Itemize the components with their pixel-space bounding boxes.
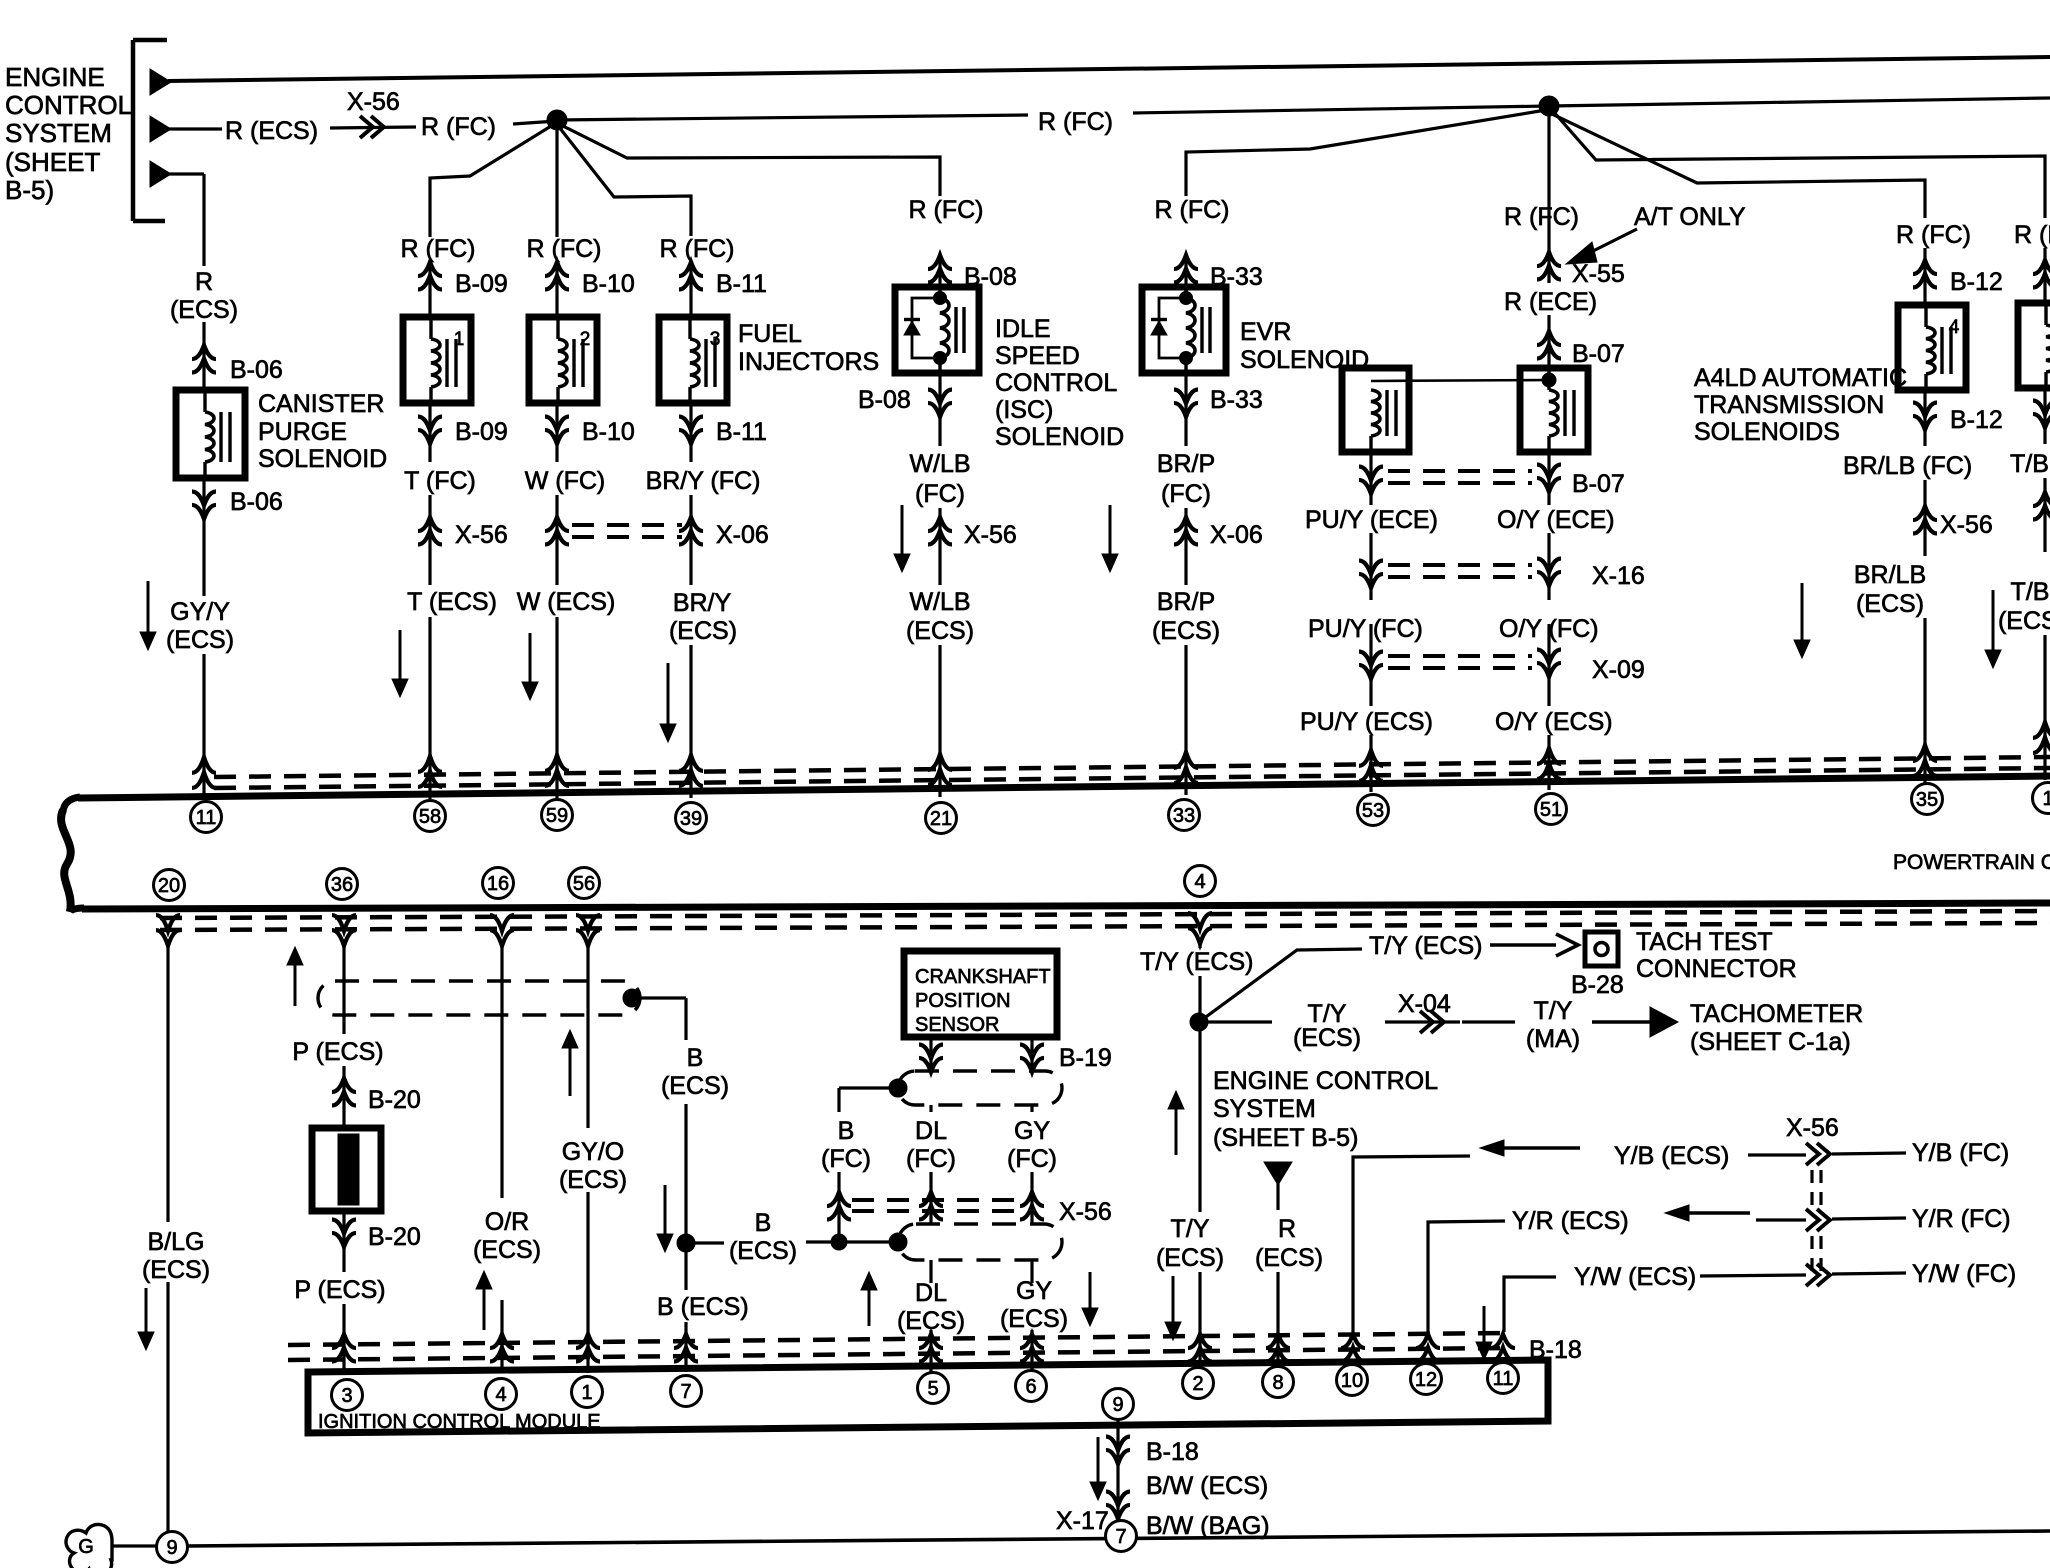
svg-text:X-16: X-16 [1592, 562, 1645, 590]
svg-text:W (ECS): W (ECS) [517, 588, 616, 616]
arrow: W direction down [529, 633, 532, 684]
svg-text:(MA): (MA) [1526, 1025, 1580, 1053]
wire: R (FC) to junction [513, 121, 557, 124]
EVR solenoid [1142, 287, 1226, 373]
svg-text:GY: GY [1014, 1117, 1050, 1145]
svg-text:Y/B (FC): Y/B (FC) [1912, 1139, 2009, 1167]
connector X-55 [1547, 197, 1550, 283]
PCM pin 1 (clipped) [2033, 783, 2050, 814]
PCM pin 51 [1536, 794, 1567, 825]
wire W (ECS) to PCM [555, 617, 558, 798]
svg-text:R (FC): R (FC) [660, 235, 735, 263]
svg-text:(SHEET B-5): (SHEET B-5) [1213, 1124, 1358, 1152]
wire T/Y down [1198, 942, 1201, 948]
wire R (ECS) down [1276, 1183, 1279, 1210]
powertrain control module: bottom edge [70, 908, 84, 912]
svg-text:BR/P: BR/P [1157, 588, 1215, 616]
wire: J2 to EVR feed [1186, 110, 1546, 196]
connector B-18 chevron pin 5 [919, 1334, 943, 1348]
connector chevron at PCM pin 21 [928, 754, 952, 770]
connector B-12 lower [1923, 390, 1926, 446]
connector chevron at PCM pin 51 [1537, 748, 1561, 764]
svg-text:R: R [195, 268, 213, 296]
svg-text:FUEL: FUEL [738, 320, 802, 348]
PCM pin 36 [327, 869, 358, 900]
ICM pin 1 [572, 1377, 603, 1408]
svg-text:SOLENOID: SOLENOID [258, 445, 387, 473]
node: junction T/Y [1190, 1013, 1208, 1031]
svg-text:PURGE: PURGE [258, 418, 347, 446]
ICM pin 5 [918, 1373, 949, 1404]
svg-text:T/Y: T/Y [1171, 1215, 1210, 1243]
svg-text:B: B [838, 1117, 855, 1145]
svg-text:T/Y: T/Y [1534, 997, 1573, 1025]
svg-text:SOLENOID: SOLENOID [995, 423, 1124, 451]
arrow: T/Y direction down [1172, 1276, 1175, 1324]
connector chevron below PCM pin 36 [332, 930, 356, 946]
node: junction inside right A4LD box [1542, 373, 1556, 387]
ICM pin 6 [1016, 1371, 1047, 1402]
wire T (ECS) to PCM [428, 617, 431, 799]
svg-text:ENGINE: ENGINE [5, 62, 105, 92]
connector chevron far right upper [2043, 248, 2046, 303]
svg-text:B-09: B-09 [455, 418, 508, 446]
wire Y/R to X-56 [1756, 1218, 1806, 1221]
svg-text:(ECS): (ECS) [661, 1072, 729, 1100]
ICM pin 11 [1488, 1363, 1519, 1394]
fuel injector 3 [659, 317, 727, 403]
svg-text:T/B: T/B [2011, 578, 2050, 606]
arrow: Y/R direction left [1685, 1211, 1750, 1214]
svg-text:BR/Y (FC): BR/Y (FC) [646, 467, 761, 495]
svg-text:A/T ONLY: A/T ONLY [1634, 203, 1746, 231]
node: junction on B wire [831, 1234, 847, 1250]
connector B-08 lower [938, 373, 941, 446]
svg-text:PU/Y (ECE): PU/Y (ECE) [1305, 506, 1438, 534]
shielded cable oval X-56 [898, 1224, 1062, 1260]
connector dashes below PCM [160, 911, 2050, 918]
svg-text:X-56: X-56 [1786, 1114, 1839, 1142]
wire W/LB to PCM [938, 645, 941, 797]
wire B/LG (ECS) down to ground [166, 944, 169, 1222]
svg-text:G: G [78, 1536, 94, 1558]
wire: ground bus along bottom [187, 1531, 2050, 1546]
svg-text:51: 51 [1540, 799, 1562, 821]
wire Y/W to X-56 [1700, 1275, 1806, 1276]
svg-text:R (FC): R (FC) [421, 113, 496, 141]
connector X-56 (B/DL/GY) [837, 1172, 840, 1242]
svg-text:(SHEET: (SHEET [5, 147, 100, 177]
wire Y/B to X-56 [1748, 1153, 1806, 1156]
svg-text:B-28: B-28 [1571, 971, 1624, 999]
wire Y/W (FC) [1832, 1273, 1906, 1274]
svg-text:CONTROL: CONTROL [5, 90, 132, 120]
svg-text:B: B [687, 1044, 704, 1072]
wire: J1 to injector 3 feed [559, 127, 691, 236]
wire from ICM pin 9 down [1116, 1419, 1119, 1521]
wire: junction stub to shield oval 2 [686, 1241, 724, 1244]
connector B-19 (pair) [919, 1058, 943, 1072]
svg-text:T (FC): T (FC) [404, 467, 476, 495]
svg-text:(ECS): (ECS) [1156, 1244, 1224, 1272]
connector X-09 (pair) [1369, 624, 1372, 706]
svg-text:X-56: X-56 [455, 521, 508, 549]
svg-text:POSITION: POSITION [915, 990, 1011, 1012]
connector chevron at PCM pin 39 [679, 755, 703, 771]
svg-text:(ECS): (ECS) [559, 1166, 627, 1194]
arrow: B/LG direction down [145, 1288, 148, 1334]
svg-text:12: 12 [1415, 1369, 1437, 1391]
shielded cable oval (P/O-R/GY-O) [318, 981, 640, 1015]
connector B-11 lower [689, 403, 692, 462]
svg-text:B-11: B-11 [716, 418, 767, 446]
svg-text:IGNITION CONTROL MODULE: IGNITION CONTROL MODULE [318, 1411, 601, 1433]
wire T/Y down to ICM [1198, 1022, 1201, 1212]
connector X-56 far right [2043, 478, 2046, 552]
svg-text:4: 4 [1949, 317, 1960, 338]
svg-text:B-10: B-10 [582, 270, 635, 298]
wire far right to PCM [2043, 635, 2046, 780]
svg-text:1: 1 [2042, 788, 2050, 810]
wire GY below oval [1030, 1260, 1033, 1283]
svg-text:(ECS): (ECS) [1293, 1024, 1361, 1052]
svg-text:(FC): (FC) [1161, 480, 1211, 508]
svg-text:B-09: B-09 [455, 270, 508, 298]
wire Y/R (ECS) [1428, 1221, 1505, 1332]
svg-text:P (ECS): P (ECS) [292, 1038, 383, 1066]
svg-text:DL: DL [915, 1117, 947, 1145]
PCM pin 4 [1185, 866, 1216, 897]
ground pin circle 9 [157, 1532, 188, 1563]
svg-text:X-56: X-56 [1059, 1198, 1112, 1226]
svg-text:W (FC): W (FC) [525, 467, 606, 495]
connector X-56 chevron (Y/W) [1806, 1264, 1819, 1286]
svg-text:11: 11 [1493, 1368, 1514, 1390]
connector B-07 lower (pair) [1369, 452, 1372, 505]
connector B-33 upper [1184, 255, 1187, 287]
connector chevron below PCM pin 56 [576, 930, 600, 946]
svg-text:B-33: B-33 [1210, 386, 1263, 414]
idle speed control solenoid [895, 287, 979, 373]
ground symbol G [66, 1524, 112, 1568]
wire: J2 to far-right column feed [1552, 110, 2045, 218]
svg-text:CONTROL: CONTROL [995, 369, 1117, 397]
svg-text:CRANKSHAFT: CRANKSHAFT [915, 966, 1051, 988]
connector B-18 chevron pin 10 [1341, 1334, 1365, 1348]
shielded cable oval B-19 [898, 1071, 1062, 1105]
svg-text:W/LB: W/LB [909, 450, 970, 478]
A4LD solenoid (right) [1520, 368, 1588, 452]
svg-text:59: 59 [546, 805, 568, 827]
svg-text:B-07: B-07 [1572, 340, 1625, 368]
wire Y/B (ECS) [1353, 1156, 1470, 1332]
svg-text:R (ECS): R (ECS) [225, 117, 318, 145]
svg-text:(ECS): (ECS) [669, 617, 737, 645]
arrow: DL direction up [868, 1288, 871, 1326]
PCM pin 56 [569, 868, 600, 899]
svg-text:Y/W (FC): Y/W (FC) [1912, 1260, 2016, 1288]
svg-text:SYSTEM: SYSTEM [5, 118, 112, 148]
tach test connector B-28 [1585, 932, 1618, 966]
connector chevron at PCM pin 11 [192, 757, 216, 773]
connector B-18 below ICM [1106, 1450, 1130, 1464]
svg-text:9: 9 [166, 1537, 177, 1559]
wire DL below oval [929, 1260, 932, 1283]
wire + arrow to tachometer [1592, 1020, 1650, 1023]
svg-text:(ECS): (ECS) [906, 617, 974, 645]
shorting bar [312, 1128, 381, 1211]
svg-text:B-12: B-12 [1950, 406, 2003, 434]
wire PU/Y to PCM [1369, 735, 1372, 792]
fuel injector 1 [403, 317, 471, 403]
wire: R (FC) bus J1 to J2 [557, 115, 1028, 120]
connector B-09 lower [428, 403, 431, 462]
svg-text:BR/LB (FC): BR/LB (FC) [1843, 452, 1972, 480]
wire: T/Y branch to tach test [1199, 949, 1362, 1022]
svg-text:3: 3 [710, 329, 721, 350]
PCM pin 21 [926, 803, 957, 834]
ICM pin 10 [1337, 1365, 1368, 1396]
arrow: BR/LB direction down [1801, 583, 1804, 642]
connector B-09 upper [428, 262, 431, 317]
connector B-20 upper [332, 1078, 356, 1092]
svg-text:B/W (ECS): B/W (ECS) [1146, 1472, 1268, 1500]
connector triangle to sheet B-5 (R wire) [1264, 1162, 1292, 1185]
arrow: GY direction down [1089, 1272, 1092, 1310]
connector X-16 (pair) [1369, 533, 1372, 600]
svg-text:O/Y (ECE): O/Y (ECE) [1497, 506, 1615, 534]
svg-text:A4LD AUTOMATIC: A4LD AUTOMATIC [1694, 364, 1907, 392]
wire: R (ECS) from arrow 3 [168, 172, 204, 175]
svg-text:B-20: B-20 [368, 1086, 421, 1114]
svg-text:(ECS): (ECS) [166, 626, 234, 654]
svg-text:IDLE: IDLE [995, 315, 1051, 343]
connector dashes above PCM [214, 757, 2050, 777]
dashed link X-56 between Y rows [1810, 1170, 1813, 1208]
ICM pin 7 [671, 1376, 702, 1407]
svg-text:R (ECE): R (ECE) [1504, 288, 1597, 316]
svg-text:16: 16 [487, 873, 509, 895]
svg-text:BR/LB: BR/LB [1854, 561, 1926, 589]
svg-text:2: 2 [580, 329, 591, 350]
connector X-56 (Y wires) [1806, 1143, 1819, 1165]
wire: shield drain to B (ECS) [632, 996, 686, 999]
node: junction J1 [547, 110, 567, 130]
svg-text:10: 10 [1341, 1370, 1363, 1392]
connector B-18 chevron pin 12 [1416, 1334, 1440, 1348]
connector B-18 chevron pin 4 [490, 1334, 514, 1348]
svg-text:B-06: B-06 [230, 356, 283, 384]
connector arrow 2 (to sheet B-5) [150, 116, 171, 142]
svg-text:SYSTEM: SYSTEM [1213, 1095, 1316, 1123]
svg-text:35: 35 [1916, 789, 1938, 811]
connector B-18 chevron pin 8 [1266, 1334, 1290, 1348]
connector B-06 upper [192, 345, 216, 359]
ICM pin 12 [1411, 1364, 1442, 1395]
node: junction B (ECS) [677, 1234, 695, 1252]
arrow: W/LB direction down [901, 505, 904, 556]
connector B-18 chevron pin 7 [674, 1334, 698, 1348]
connector chevron at PCM pin 59 [545, 755, 569, 771]
svg-text:56: 56 [573, 873, 595, 895]
svg-text:Y/R (ECS): Y/R (ECS) [1512, 1207, 1629, 1235]
ICM pin 4 [486, 1379, 517, 1410]
svg-text:58: 58 [419, 806, 441, 828]
svg-text:X-56: X-56 [347, 88, 400, 116]
svg-text:B-06: B-06 [230, 488, 283, 516]
wire B (ECS) to ICM [684, 1243, 687, 1290]
svg-text:INJECTORS: INJECTORS [738, 348, 879, 376]
svg-text:X-55: X-55 [1572, 260, 1625, 288]
svg-text:(ECS): (ECS) [1856, 590, 1924, 618]
wire: J1 to ISC feed [559, 124, 940, 196]
svg-text:GY/Y: GY/Y [170, 598, 230, 626]
wire with arrowhead to tach test connector [1490, 943, 1556, 946]
svg-text:(SHEET C-1a): (SHEET C-1a) [1690, 1028, 1851, 1056]
arrow: direction up (P wire) [294, 963, 297, 1006]
svg-text:CONNECTOR: CONNECTOR [1636, 955, 1797, 983]
wire O/R down [500, 944, 503, 1198]
connector X-56 (W/LB) [938, 508, 941, 585]
svg-text:(ECS): (ECS) [1998, 607, 2050, 635]
node: shield drain dot B-19 [889, 1079, 907, 1097]
svg-text:7: 7 [680, 1381, 691, 1403]
connector chevron at PCM pin 58 [418, 756, 442, 772]
wire sensor output DL [929, 1037, 932, 1073]
node: shield drain dot X-56 oval [889, 1233, 907, 1251]
connector arrow 3 (to sheet B-5) [150, 161, 171, 187]
wire O/Y to PCM [1547, 735, 1550, 790]
svg-text:PU/Y (FC): PU/Y (FC) [1308, 615, 1423, 643]
connector B-10 lower [555, 403, 558, 462]
svg-text:B: B [755, 1209, 772, 1237]
connector arrow 1 (to sheet B-5) [150, 69, 171, 95]
svg-text:X-06: X-06 [1210, 521, 1263, 549]
svg-text:R (FC): R (FC) [1038, 108, 1113, 136]
svg-text:X-04: X-04 [1398, 990, 1451, 1018]
svg-text:(ECS): (ECS) [729, 1237, 797, 1265]
arrow: O/R direction up [483, 1287, 486, 1330]
wire: R (FC) bus continues to J2 [1133, 106, 1549, 113]
svg-text:B-10: B-10 [582, 418, 635, 446]
svg-text:R (FC): R (FC) [909, 196, 984, 224]
connector X-56 in-line [330, 127, 416, 128]
wire Y/B (FC) [1832, 1153, 1906, 1154]
connector chevron at PCM pin 33 [1174, 752, 1198, 768]
svg-text:B-08: B-08 [858, 386, 911, 414]
connector X-56 (BR/LB) [1923, 480, 1926, 556]
wire: B-19 shield drain to B (FC) [839, 1086, 898, 1089]
wire BR/Y to PCM [689, 645, 692, 798]
svg-text:X-09: X-09 [1592, 656, 1645, 684]
svg-text:GY/O: GY/O [562, 1138, 625, 1166]
connector chevron at PCM pin 35 [1913, 745, 1937, 761]
PCM pin 58 [415, 801, 446, 832]
connector chevron below PCM pin 20 [156, 930, 180, 946]
svg-text:TACH TEST: TACH TEST [1636, 928, 1773, 956]
connector B-20 lower [342, 1211, 345, 1272]
connector X-04 in-line [1385, 1020, 1460, 1023]
wire GY/Y to PCM [202, 654, 205, 800]
connector X-56 chevron (Y/R) [1806, 1209, 1819, 1231]
svg-text:6: 6 [1025, 1376, 1036, 1398]
connector X-56 (T wire) [428, 495, 431, 585]
wire Y/W (ECS) [1504, 1277, 1556, 1332]
A4LD solenoid (left) [1342, 368, 1409, 452]
wire: J2 down to A4LD [1547, 108, 1550, 197]
fuel injector 5 (clipped at edge) [2018, 303, 2050, 388]
connector B-12 upper [1923, 248, 1926, 305]
node: shield drain dot [623, 989, 641, 1007]
svg-text:T/Y (ECS): T/Y (ECS) [1140, 948, 1253, 976]
svg-text:39: 39 [680, 808, 702, 830]
PCM pin 20 [154, 870, 185, 901]
svg-text:T (ECS): T (ECS) [407, 588, 497, 616]
svg-text:(FC): (FC) [1007, 1145, 1057, 1173]
svg-text:(ECS): (ECS) [1152, 617, 1220, 645]
svg-text:3: 3 [341, 1385, 352, 1407]
PCM pin 35 [1912, 784, 1943, 815]
svg-text:X-06: X-06 [716, 521, 769, 549]
ICM pin 2 [1183, 1368, 1214, 1399]
svg-text:7: 7 [1115, 1526, 1126, 1548]
svg-text:B-18: B-18 [1146, 1438, 1199, 1466]
wire: J1 to injector 1 feed [430, 123, 556, 237]
svg-text:Y/R (FC): Y/R (FC) [1912, 1205, 2011, 1233]
svg-text:X-56: X-56 [964, 521, 1017, 549]
svg-text:(FC): (FC) [915, 480, 965, 508]
connector chevron at PCM far right pin [2033, 722, 2050, 738]
svg-text:8: 8 [1272, 1372, 1283, 1394]
ignition control module box [308, 1360, 1548, 1433]
svg-text:B-11: B-11 [716, 270, 767, 298]
svg-text:TRANSMISSION: TRANSMISSION [1694, 391, 1884, 419]
wire P (ECS) to ICM [342, 1304, 345, 1374]
connector B-18 chevron pin 11 [1491, 1334, 1515, 1348]
svg-text:2: 2 [1192, 1373, 1203, 1395]
wire P (ECS) down [342, 944, 345, 1034]
svg-text:GY: GY [1016, 1277, 1052, 1305]
connector B-11 upper [689, 262, 692, 317]
wire GY/O down [586, 944, 589, 1128]
connector chevron below PCM pin 16 [490, 930, 514, 946]
svg-text:O/Y (ECS): O/Y (ECS) [1495, 708, 1613, 736]
svg-text:4: 4 [495, 1384, 506, 1406]
svg-text:11: 11 [196, 807, 217, 829]
wire: T/Y to tachometer [1199, 1020, 1272, 1023]
svg-text:36: 36 [331, 874, 353, 896]
wire sensor output GY [1030, 1037, 1033, 1073]
powertrain control module: top edge [63, 797, 80, 812]
wire: J1 down to injector 2 [555, 122, 558, 237]
svg-text:B/LG: B/LG [148, 1228, 205, 1256]
svg-text:B-5): B-5) [5, 175, 54, 205]
svg-text:(ISC): (ISC) [995, 396, 1053, 424]
connector chevron far right lower [2043, 388, 2046, 444]
svg-text:BR/Y: BR/Y [673, 589, 732, 617]
wire dashes X-06 pair [572, 523, 682, 527]
wire: link between A4LD solenoids [1371, 380, 1549, 381]
connector B-08 upper [938, 255, 941, 287]
svg-text:O/R: O/R [485, 1208, 529, 1236]
svg-text:DL: DL [915, 1279, 947, 1307]
wire BR/P to PCM [1184, 645, 1187, 795]
svg-text:SOLENOIDS: SOLENOIDS [1694, 418, 1840, 446]
crankshaft position sensor box [904, 951, 1057, 1037]
PCM pin 33 [1169, 800, 1200, 831]
svg-text:(ECS): (ECS) [1000, 1305, 1068, 1333]
svg-text:4: 4 [1194, 871, 1205, 893]
